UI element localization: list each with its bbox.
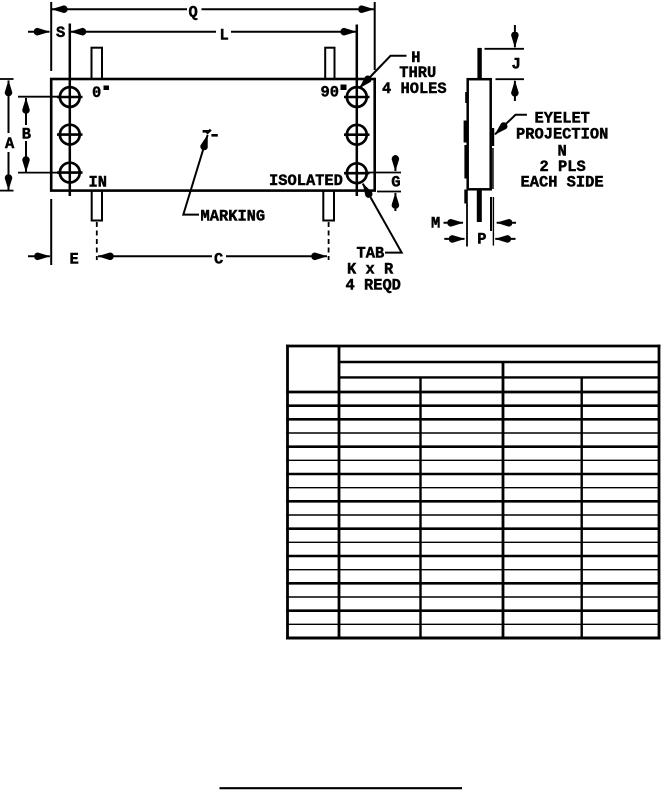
svg-text:J: J [512, 56, 521, 74]
centerline left holes [69, 24, 72, 197]
leader TAB [363, 184, 402, 253]
tab bottom-left [92, 191, 102, 221]
svg-text:B: B [22, 126, 31, 144]
dimension S [28, 24, 65, 42]
centerline bottom-right tab (dashed) [328, 222, 330, 260]
side lead bottom [477, 190, 482, 222]
svg-text:PROJECTION: PROJECTION [516, 125, 608, 143]
dimension B [18, 97, 59, 173]
svg-text:ISOLATED: ISOLATED [269, 172, 343, 190]
tab bottom-right [323, 191, 334, 221]
eyelet marks left [464, 92, 467, 179]
label TAB K x R 4 REQD [346, 245, 401, 295]
label 0 deg [92, 84, 109, 102]
eyelet marks right [492, 128, 494, 189]
svg-text:A: A [5, 135, 15, 153]
label ISOLATED [269, 172, 343, 190]
hole right-1 [344, 87, 370, 107]
dimension M [431, 215, 516, 233]
hole left-3 [57, 163, 83, 183]
dimension Q [52, 4, 374, 22]
svg-text:MARKING: MARKING [201, 207, 266, 225]
hole right-3 [344, 163, 370, 183]
table header lines [286, 362, 659, 392]
svg-text:P: P [477, 231, 486, 249]
hole left-2 [57, 125, 83, 145]
dimension A [0, 79, 15, 191]
table vertical dividers [339, 346, 582, 638]
svg-text:90: 90 [321, 84, 339, 102]
side lead top [477, 48, 481, 79]
svg-text:S: S [56, 24, 65, 42]
bottom rule [220, 787, 463, 789]
marking leader and squiggle [183, 130, 217, 215]
centerline right holes [356, 25, 359, 197]
label H THRU 4 HOLES [382, 49, 447, 98]
dimension L [70, 27, 356, 45]
svg-text:0: 0 [92, 84, 101, 102]
centerline bottom-left tab (dashed) [96, 222, 98, 260]
label EYELET PROJECTION N 2 PLS EACH SIDE [516, 109, 608, 191]
tab top-left [92, 48, 103, 79]
table row lines thick [286, 406, 659, 611]
dimension G [368, 155, 401, 211]
svg-text:4 REQD: 4 REQD [346, 277, 401, 295]
svg-text:EACH SIDE: EACH SIDE [521, 173, 604, 191]
hole right-2 [344, 125, 370, 145]
dimension J [485, 25, 525, 101]
TABLE GROUP [286, 345, 660, 640]
svg-text:E: E [70, 251, 79, 269]
leader H thru holes [360, 56, 407, 88]
svg-text:IN: IN [89, 173, 107, 191]
package outline [51, 79, 375, 191]
label 90 deg [321, 84, 347, 102]
svg-text:L: L [220, 27, 229, 45]
table row lines thin [286, 433, 659, 624]
svg-text:G: G [391, 174, 400, 192]
svg-text:C: C [214, 251, 223, 269]
side body outline [468, 79, 491, 189]
svg-text:Q: Q [189, 4, 198, 22]
label IN [89, 173, 107, 191]
svg-text:4 HOLES: 4 HOLES [382, 80, 447, 98]
extension line left edge [50, 2, 52, 265]
dimension C [98, 251, 327, 269]
svg-text:M: M [431, 215, 440, 233]
table outer border [286, 345, 660, 640]
leader EYELET [495, 115, 527, 135]
dimension P [444, 231, 515, 249]
hole left-1 [57, 87, 83, 107]
label MARKING [201, 207, 266, 225]
tab top-right [325, 48, 334, 79]
extension line right edge [374, 2, 376, 70]
dimension E [28, 251, 79, 269]
side extension lines below body [464, 190, 493, 247]
